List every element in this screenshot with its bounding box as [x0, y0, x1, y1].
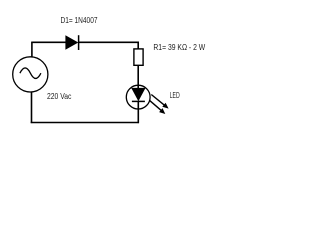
- svg-text:LED: LED: [170, 91, 180, 100]
- wire bottom-left vertical: [31, 92, 33, 123]
- svg-text:D1= 1N4007: D1= 1N4007: [61, 16, 98, 25]
- AC source circle: [13, 57, 48, 92]
- svg-text:R1= 39 KΩ - 2 W: R1= 39 KΩ - 2 W: [153, 43, 205, 52]
- AC source sine wave: [20, 68, 41, 79]
- resistor R1 body: [134, 49, 143, 65]
- diode D1 cathode bar: [78, 35, 80, 50]
- wire top horizontal right segment: [79, 41, 139, 43]
- wire resistor to LED: [137, 65, 139, 88]
- wire right vertical into resistor: [137, 42, 139, 50]
- diode D1 triangle: [66, 36, 78, 49]
- LED arrow 1: [151, 95, 168, 109]
- wire LED to bottom: [137, 101, 139, 123]
- wire bottom horizontal: [31, 122, 139, 124]
- LED triangle: [132, 88, 145, 100]
- LED circle: [126, 85, 150, 109]
- wire top-left vertical stub: [31, 42, 33, 57]
- LED cathode bar: [132, 100, 145, 102]
- svg-text:220 Vac: 220 Vac: [47, 92, 71, 101]
- wire top horizontal left segment: [31, 41, 66, 43]
- LED arrow 2: [149, 100, 165, 114]
